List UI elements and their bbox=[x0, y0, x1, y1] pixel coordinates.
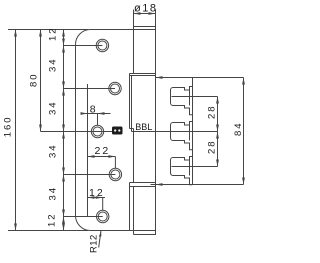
svg-text:12: 12 bbox=[89, 187, 105, 199]
svg-text:34: 34 bbox=[48, 143, 59, 158]
svg-text:ø18: ø18 bbox=[134, 2, 157, 14]
svg-text:8: 8 bbox=[90, 104, 98, 116]
svg-text:12: 12 bbox=[47, 212, 58, 227]
svg-text:R12: R12 bbox=[88, 234, 99, 253]
svg-text:84: 84 bbox=[233, 121, 244, 136]
svg-text:28: 28 bbox=[207, 104, 218, 119]
svg-text:34: 34 bbox=[48, 57, 59, 72]
svg-text:22: 22 bbox=[95, 145, 111, 157]
svg-text:BBL: BBL bbox=[135, 122, 152, 132]
svg-text:34: 34 bbox=[48, 100, 59, 115]
svg-text:80: 80 bbox=[28, 72, 39, 87]
svg-text:28: 28 bbox=[207, 139, 218, 154]
svg-text:160: 160 bbox=[3, 115, 14, 137]
svg-text:34: 34 bbox=[48, 186, 59, 201]
svg-text:12: 12 bbox=[48, 26, 59, 41]
